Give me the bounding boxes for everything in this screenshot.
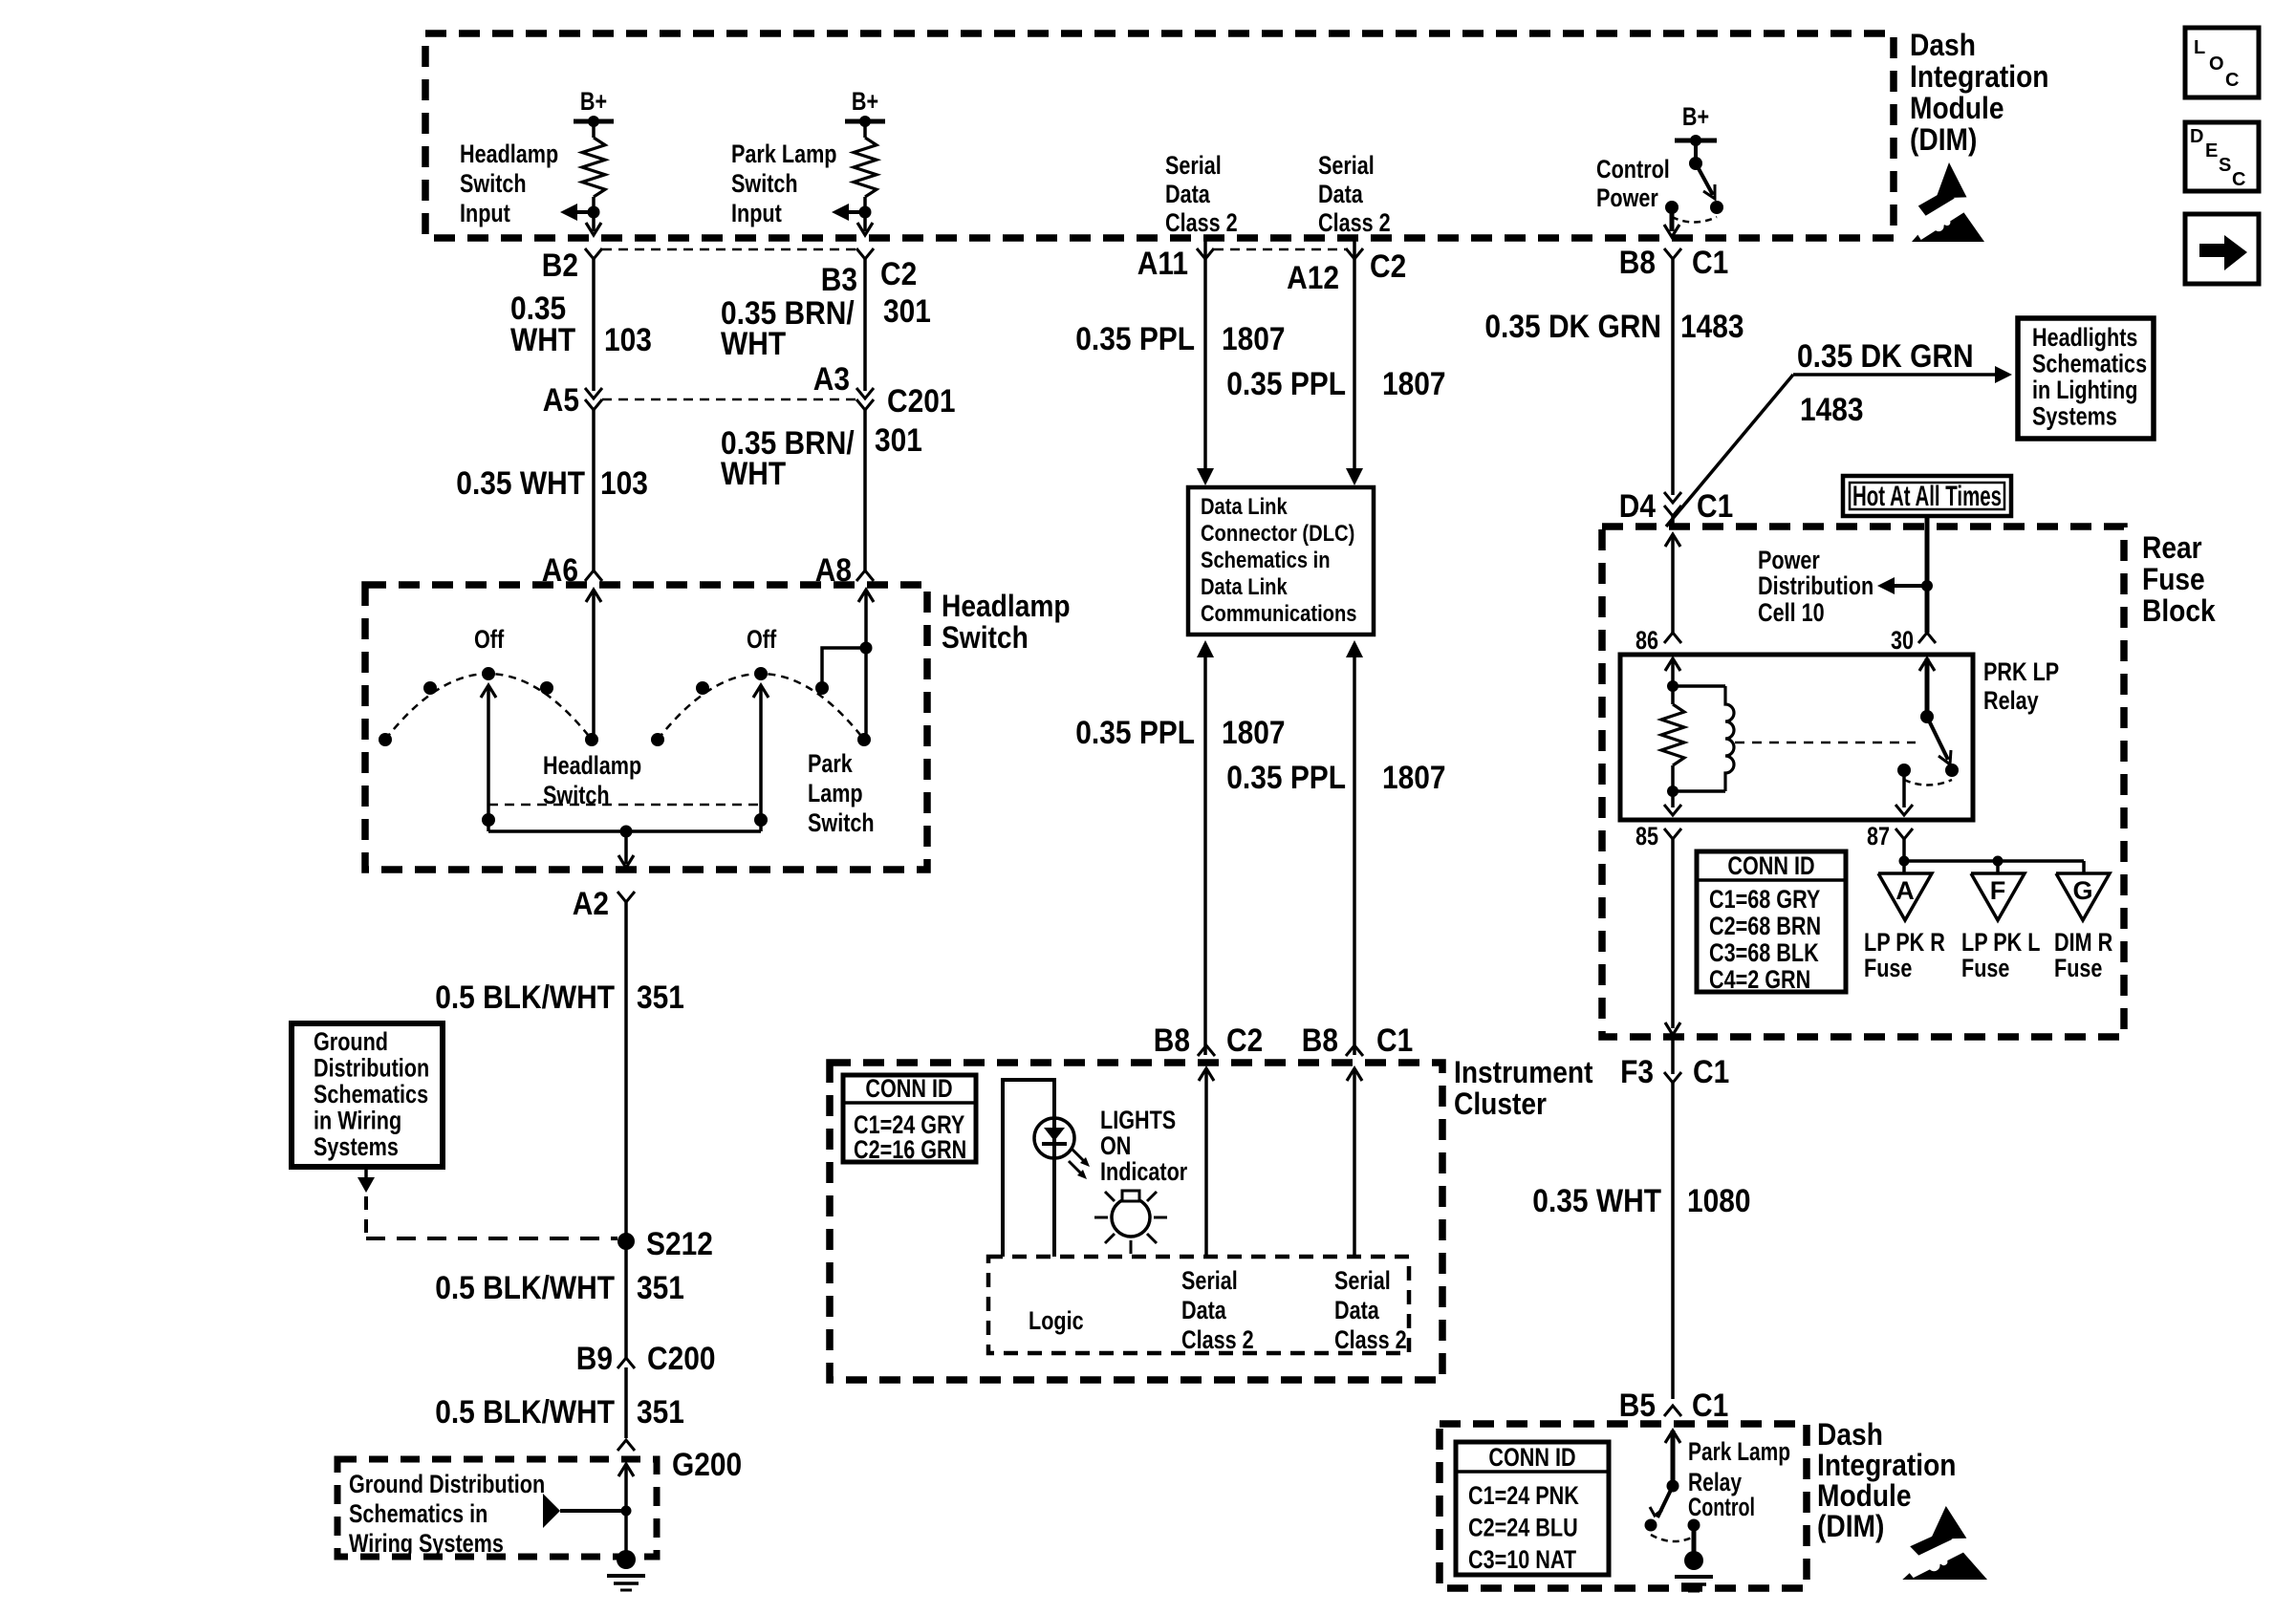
svg-text:1807: 1807 bbox=[1222, 321, 1286, 357]
svg-text:C4=2 GRN: C4=2 GRN bbox=[1709, 965, 1810, 994]
svg-text:DIM R: DIM R bbox=[2054, 928, 2112, 957]
svg-text:G: G bbox=[2072, 876, 2092, 905]
svg-text:C1: C1 bbox=[1376, 1022, 1413, 1059]
svg-text:Block: Block bbox=[2142, 593, 2216, 628]
svg-text:L: L bbox=[2194, 37, 2205, 58]
svg-text:Input: Input bbox=[731, 199, 782, 227]
svg-text:Input: Input bbox=[460, 199, 510, 227]
svg-text:Relay: Relay bbox=[1983, 686, 2039, 715]
svg-text:Fuse: Fuse bbox=[1961, 954, 2009, 982]
svg-text:Class 2: Class 2 bbox=[1318, 208, 1391, 237]
svg-text:Park Lamp: Park Lamp bbox=[1688, 1437, 1790, 1466]
svg-text:351: 351 bbox=[637, 1270, 684, 1306]
svg-text:Connector (DLC): Connector (DLC) bbox=[1201, 521, 1354, 547]
svg-text:Control: Control bbox=[1596, 155, 1670, 183]
svg-text:0.35 PPL: 0.35 PPL bbox=[1226, 366, 1346, 402]
svg-text:C2: C2 bbox=[1226, 1022, 1263, 1059]
svg-text:Fuse: Fuse bbox=[1864, 954, 1912, 982]
svg-text:D4: D4 bbox=[1619, 488, 1656, 525]
svg-text:1807: 1807 bbox=[1382, 760, 1446, 796]
svg-text:C1=24 PNK: C1=24 PNK bbox=[1468, 1481, 1579, 1510]
svg-text:LIGHTS: LIGHTS bbox=[1100, 1106, 1176, 1134]
svg-text:A12: A12 bbox=[1287, 260, 1339, 296]
svg-text:Schematics: Schematics bbox=[314, 1080, 428, 1108]
svg-text:Off: Off bbox=[474, 625, 505, 654]
svg-text:351: 351 bbox=[637, 979, 684, 1016]
svg-text:A5: A5 bbox=[543, 382, 579, 419]
svg-text:Schematics in: Schematics in bbox=[1201, 548, 1331, 573]
svg-text:B8: B8 bbox=[1619, 245, 1656, 281]
svg-text:C1=68 GRY: C1=68 GRY bbox=[1709, 885, 1820, 914]
svg-text:Systems: Systems bbox=[314, 1132, 399, 1161]
svg-text:Serial: Serial bbox=[1165, 151, 1222, 180]
svg-text:Dash: Dash bbox=[1910, 28, 1976, 62]
svg-text:S212: S212 bbox=[646, 1226, 713, 1262]
svg-text:Distribution: Distribution bbox=[1758, 571, 1874, 600]
svg-text:Logic: Logic bbox=[1029, 1306, 1084, 1335]
svg-text:PRK LP: PRK LP bbox=[1983, 657, 2059, 686]
svg-text:A2: A2 bbox=[573, 886, 609, 922]
svg-text:0.5 BLK/WHT: 0.5 BLK/WHT bbox=[435, 979, 615, 1016]
svg-text:C3=10 NAT: C3=10 NAT bbox=[1468, 1545, 1576, 1574]
svg-text:WHT: WHT bbox=[721, 456, 786, 492]
svg-text:Fuse: Fuse bbox=[2142, 562, 2205, 596]
svg-text:Ground: Ground bbox=[314, 1027, 388, 1056]
svg-text:Class 2: Class 2 bbox=[1165, 208, 1238, 237]
svg-text:Serial: Serial bbox=[1334, 1266, 1391, 1295]
svg-text:Fuse: Fuse bbox=[2054, 954, 2102, 982]
svg-text:C201: C201 bbox=[887, 383, 956, 420]
svg-text:LP PK R: LP PK R bbox=[1864, 928, 1945, 957]
svg-text:Dash: Dash bbox=[1817, 1417, 1883, 1452]
svg-text:G200: G200 bbox=[672, 1447, 742, 1483]
svg-text:Headlamp: Headlamp bbox=[543, 751, 641, 780]
svg-text:Off: Off bbox=[747, 625, 777, 654]
svg-text:C1: C1 bbox=[1692, 1388, 1728, 1424]
svg-text:E: E bbox=[2205, 140, 2218, 161]
svg-text:B2: B2 bbox=[542, 247, 578, 284]
svg-text:WHT: WHT bbox=[721, 326, 786, 362]
svg-text:C2=68 BRN: C2=68 BRN bbox=[1709, 912, 1821, 940]
svg-text:Hot At All Times: Hot At All Times bbox=[1852, 481, 2002, 512]
svg-text:Module: Module bbox=[1910, 91, 2004, 125]
svg-text:Integration: Integration bbox=[1817, 1448, 1957, 1482]
svg-text:C: C bbox=[2225, 70, 2239, 91]
svg-text:in Lighting: in Lighting bbox=[2032, 376, 2137, 404]
svg-text:Integration: Integration bbox=[1910, 59, 2049, 94]
svg-text:Switch: Switch bbox=[808, 808, 875, 837]
svg-text:85: 85 bbox=[1635, 822, 1658, 850]
svg-text:30: 30 bbox=[1891, 626, 1914, 655]
svg-text:Data: Data bbox=[1181, 1296, 1227, 1324]
svg-text:B3: B3 bbox=[821, 262, 857, 298]
svg-text:Schematics in: Schematics in bbox=[349, 1499, 487, 1528]
svg-text:B8: B8 bbox=[1154, 1022, 1190, 1059]
svg-text:1080: 1080 bbox=[1687, 1183, 1751, 1219]
svg-text:103: 103 bbox=[604, 322, 652, 358]
svg-text:Power: Power bbox=[1596, 183, 1658, 212]
svg-text:1483: 1483 bbox=[1800, 392, 1864, 428]
svg-text:Serial: Serial bbox=[1318, 151, 1375, 180]
svg-text:Data: Data bbox=[1334, 1296, 1380, 1324]
svg-text:Data Link: Data Link bbox=[1201, 574, 1288, 600]
svg-text:0.5 BLK/WHT: 0.5 BLK/WHT bbox=[435, 1394, 615, 1431]
svg-text:Rear: Rear bbox=[2142, 530, 2202, 565]
svg-text:S: S bbox=[2219, 155, 2231, 176]
svg-text:F: F bbox=[1990, 876, 2006, 905]
svg-text:Lamp: Lamp bbox=[808, 779, 863, 807]
svg-text:Module: Module bbox=[1817, 1478, 1912, 1513]
svg-text:Headlamp: Headlamp bbox=[942, 589, 1071, 623]
svg-text:0.35 WHT: 0.35 WHT bbox=[1532, 1183, 1661, 1219]
svg-text:86: 86 bbox=[1635, 626, 1658, 655]
svg-text:F3: F3 bbox=[1620, 1054, 1654, 1090]
svg-text:Class 2: Class 2 bbox=[1181, 1325, 1254, 1354]
svg-text:B9: B9 bbox=[576, 1341, 613, 1377]
svg-text:1807: 1807 bbox=[1222, 715, 1286, 751]
svg-text:Class 2: Class 2 bbox=[1334, 1325, 1407, 1354]
svg-text:(DIM): (DIM) bbox=[1910, 122, 1977, 157]
svg-text:0.35 DK GRN: 0.35 DK GRN bbox=[1484, 309, 1661, 345]
svg-text:Data: Data bbox=[1318, 180, 1364, 208]
svg-text:WHT: WHT bbox=[510, 322, 575, 358]
svg-text:103: 103 bbox=[600, 465, 648, 502]
svg-text:0.35 WHT: 0.35 WHT bbox=[456, 465, 585, 502]
svg-text:Distribution: Distribution bbox=[314, 1054, 429, 1083]
svg-text:301: 301 bbox=[883, 293, 931, 330]
svg-text:Headlights: Headlights bbox=[2032, 323, 2137, 352]
svg-text:Indicator: Indicator bbox=[1100, 1157, 1188, 1186]
svg-text:Park: Park bbox=[808, 749, 854, 778]
svg-text:ON: ON bbox=[1100, 1131, 1131, 1160]
svg-text:C3=68 BLK: C3=68 BLK bbox=[1709, 938, 1819, 967]
svg-text:1483: 1483 bbox=[1680, 309, 1744, 345]
svg-text:C200: C200 bbox=[647, 1341, 716, 1377]
svg-text:B+: B+ bbox=[580, 87, 607, 116]
svg-text:B+: B+ bbox=[852, 87, 878, 116]
svg-text:C1: C1 bbox=[1697, 488, 1733, 525]
svg-text:Wiring Systems: Wiring Systems bbox=[349, 1529, 504, 1558]
svg-text:Schematics: Schematics bbox=[2032, 350, 2147, 378]
svg-text:0.35 DK GRN: 0.35 DK GRN bbox=[1797, 338, 1974, 375]
svg-text:Switch: Switch bbox=[942, 620, 1029, 655]
svg-text:CONN ID: CONN ID bbox=[1727, 851, 1814, 880]
svg-text:C2=24 BLU: C2=24 BLU bbox=[1468, 1514, 1578, 1542]
svg-text:B+: B+ bbox=[1682, 102, 1709, 131]
svg-text:in Wiring: in Wiring bbox=[314, 1107, 401, 1135]
svg-text:A: A bbox=[1895, 876, 1915, 905]
svg-text:0.35 PPL: 0.35 PPL bbox=[1075, 715, 1195, 751]
svg-text:Power: Power bbox=[1758, 546, 1820, 574]
svg-text:Cell 10: Cell 10 bbox=[1758, 598, 1825, 627]
svg-text:Switch: Switch bbox=[460, 169, 527, 198]
svg-text:C2: C2 bbox=[1370, 248, 1406, 285]
svg-text:C1: C1 bbox=[1693, 1054, 1729, 1090]
svg-text:301: 301 bbox=[875, 422, 922, 459]
svg-text:Park Lamp: Park Lamp bbox=[731, 140, 837, 168]
svg-text:(DIM): (DIM) bbox=[1817, 1509, 1884, 1543]
svg-text:87: 87 bbox=[1867, 822, 1890, 850]
svg-text:0.35 PPL: 0.35 PPL bbox=[1226, 760, 1346, 796]
svg-text:C2: C2 bbox=[880, 256, 917, 292]
svg-text:D: D bbox=[2190, 126, 2203, 147]
svg-text:1807: 1807 bbox=[1382, 366, 1446, 402]
svg-text:C2=16 GRN: C2=16 GRN bbox=[854, 1135, 966, 1164]
svg-text:A11: A11 bbox=[1137, 246, 1188, 282]
svg-text:0.5 BLK/WHT: 0.5 BLK/WHT bbox=[435, 1270, 615, 1306]
svg-text:Switch: Switch bbox=[543, 781, 610, 809]
svg-text:Control: Control bbox=[1688, 1493, 1755, 1521]
svg-text:B8: B8 bbox=[1302, 1022, 1338, 1059]
svg-text:Data: Data bbox=[1165, 180, 1211, 208]
svg-text:B5: B5 bbox=[1619, 1388, 1656, 1424]
svg-text:Communications: Communications bbox=[1201, 601, 1357, 627]
svg-text:CONN ID: CONN ID bbox=[865, 1074, 952, 1103]
svg-text:351: 351 bbox=[637, 1394, 684, 1431]
svg-text:Ground Distribution: Ground Distribution bbox=[349, 1470, 545, 1498]
svg-text:CONN ID: CONN ID bbox=[1488, 1443, 1575, 1472]
svg-text:0.35 PPL: 0.35 PPL bbox=[1075, 321, 1195, 357]
svg-text:LP PK L: LP PK L bbox=[1961, 928, 2040, 957]
svg-text:Switch: Switch bbox=[731, 169, 798, 198]
svg-text:A3: A3 bbox=[813, 361, 850, 398]
svg-text:Cluster: Cluster bbox=[1454, 1087, 1547, 1121]
svg-text:C: C bbox=[2232, 169, 2245, 190]
svg-text:Systems: Systems bbox=[2032, 402, 2117, 431]
svg-text:O: O bbox=[2209, 54, 2224, 75]
svg-text:Data Link: Data Link bbox=[1201, 494, 1288, 520]
svg-text:Headlamp: Headlamp bbox=[460, 140, 558, 168]
svg-text:Instrument: Instrument bbox=[1454, 1055, 1593, 1089]
svg-text:Serial: Serial bbox=[1181, 1266, 1238, 1295]
svg-text:C1: C1 bbox=[1692, 245, 1728, 281]
